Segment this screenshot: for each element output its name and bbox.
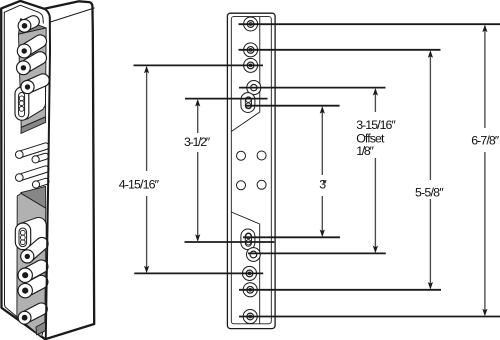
cylinder C2 cap [17, 44, 31, 58]
bottom slot boss depth band [31, 218, 46, 245]
bottom keyhole circle [247, 248, 261, 262]
svg-text:3-1/2″: 3-1/2″ [184, 135, 211, 149]
svg-text:1/8″: 1/8″ [356, 144, 374, 158]
hole H5 [243, 283, 257, 297]
rod A stub [36, 156, 46, 159]
top keyhole cylinder body [28, 80, 44, 87]
leader 4-15/16 top [134, 64, 264, 66]
cylinder C1 cap [18, 19, 31, 32]
top slot inner [245, 97, 251, 109]
light gray channel section 2 [17, 193, 46, 337]
leader 5-5/8 top [239, 49, 441, 51]
cylinder C4 cap [18, 268, 32, 282]
dark wedge channel top end [19, 19, 47, 35]
hole H2 [244, 43, 258, 57]
bottom keyhole circle inner [250, 251, 257, 258]
leader 5-5/8 bottom [239, 289, 441, 291]
leader 6-7/8 bottom [239, 316, 500, 318]
dimension 3-1/2 vertical [195, 99, 200, 242]
leader 3-1/2 bottom [185, 241, 275, 243]
top slot boss depth band [32, 77, 46, 110]
hole H1 [244, 17, 258, 31]
leader 3-1/2 top [185, 98, 268, 100]
hole H4 [242, 266, 256, 280]
top slot boss hull [19, 78, 44, 119]
wing hole bottom-right [257, 180, 266, 189]
svg-text:3″: 3″ [319, 178, 327, 192]
cylinder C5 body [25, 282, 41, 291]
svg-text:6-7/8″: 6-7/8″ [471, 133, 500, 147]
cylinder C3 cap [17, 61, 31, 75]
front face inner rim top line [4, 5, 43, 23]
wing hole top-left [237, 151, 246, 160]
leader 6-7/8 top [239, 23, 500, 25]
center section edge bottom [231, 212, 259, 324]
flat view inner plate [231, 17, 271, 324]
svg-text:4-15/16″: 4-15/16″ [119, 177, 160, 191]
cylinder C5 cap [18, 283, 32, 297]
bottom slot inner [245, 233, 251, 246]
cylinder C3 body [23, 58, 40, 68]
top slot outer [241, 93, 255, 113]
hole H6 [243, 309, 257, 323]
bottom slot inner [19, 228, 27, 247]
top slot boss [15, 87, 29, 120]
top keyhole circle [247, 81, 261, 95]
cylinder C1 body [25, 22, 34, 26]
svg-text:5-5/8″: 5-5/8″ [415, 186, 444, 200]
rod B [19, 169, 45, 177]
leader 3-15/16 bottom [248, 252, 386, 254]
leader 4-15/16 bottom [134, 272, 263, 274]
flat view outer plate [227, 13, 275, 328]
center section edge top [231, 17, 259, 132]
leader 3 top [245, 105, 340, 107]
rod A [19, 146, 45, 154]
dimension 4-15/16 vertical [144, 66, 149, 274]
bottom keyhole cylinder body [27, 244, 42, 257]
bottom slot boss [15, 223, 30, 250]
3D body silhouette [1, 1, 94, 339]
top keyhole cap [21, 80, 34, 93]
leader 3 bottom [243, 236, 340, 238]
cylinder C6 cap [18, 311, 31, 324]
front right edge [44, 9, 50, 338]
wing hole bottom-left [237, 181, 246, 190]
cylinder C2 body [24, 41, 40, 51]
cylinder C6 body [25, 309, 42, 318]
light gray channel section 1 [19, 28, 47, 128]
svg-text:3-15/16″: 3-15/16″ [356, 118, 396, 132]
dark wedge channel start below rod gap [21, 186, 46, 208]
front face inner rim left and bottom line [4, 12, 41, 337]
dimension 6-7/8 vertical [482, 25, 487, 317]
top keyhole circle inner [251, 84, 257, 90]
bottom slot outer [241, 229, 255, 250]
dimension 3-15/16 vertical [373, 88, 378, 253]
hole H3 [244, 58, 258, 72]
dimension 3 vertical [320, 106, 325, 237]
cylinder C4 body [25, 267, 41, 276]
wing hole top-right [257, 151, 266, 160]
top slot inner [19, 93, 25, 117]
leader 3-15/16 top [239, 87, 386, 89]
dimension 5-5/8 vertical [428, 50, 433, 290]
dark band channel end above rod gap [21, 117, 46, 134]
dark piece channel bottom end [36, 322, 46, 335]
bottom keyhole cap [21, 250, 34, 263]
bottom slot boss hull [20, 218, 41, 249]
side face top edge [51, 8, 95, 22]
rod B stub [36, 181, 46, 184]
